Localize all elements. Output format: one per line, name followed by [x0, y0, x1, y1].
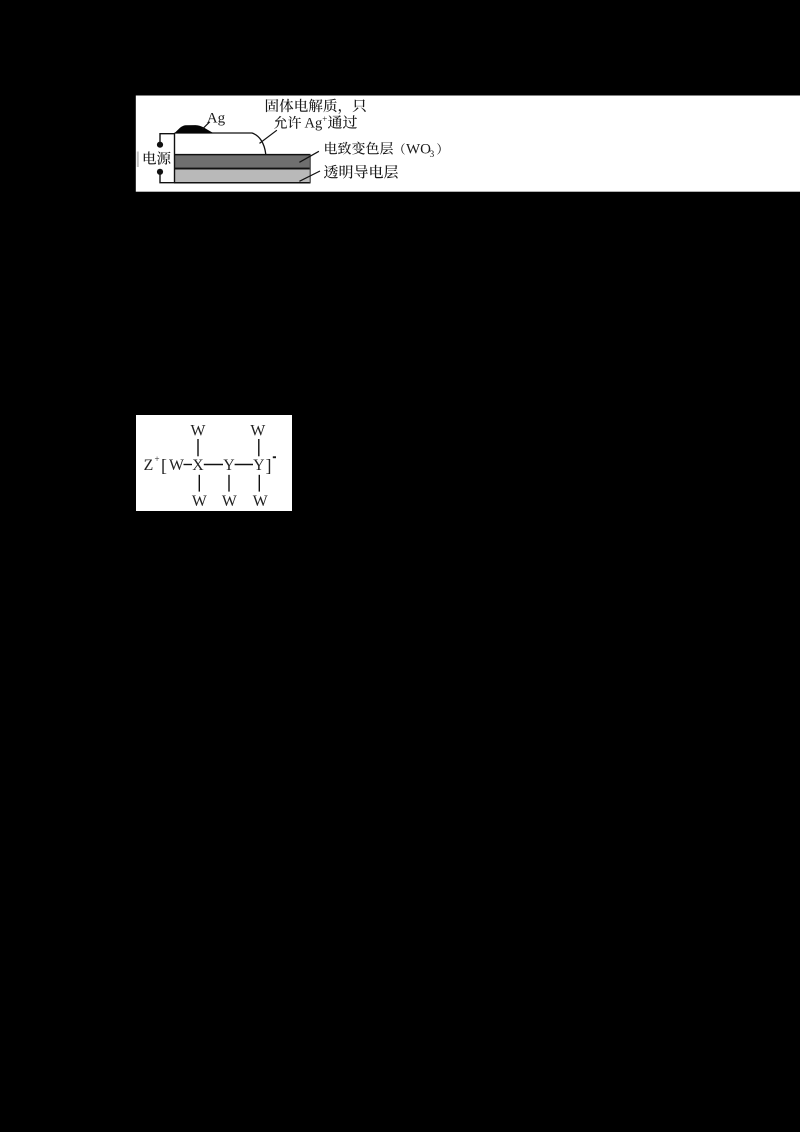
svg-text:W: W: [250, 423, 265, 440]
svg-text:W: W: [191, 423, 206, 440]
pointer line Ag label to blob: [202, 122, 209, 129]
label: 固体电解质，只: [266, 99, 366, 114]
Ag electrode blob: [174, 125, 214, 133]
svg-text:Z: Z: [144, 457, 154, 474]
svg-text:W: W: [222, 493, 237, 510]
svg-text:W: W: [169, 457, 184, 474]
svg-text:WO: WO: [406, 142, 431, 158]
bond Y to W vertical (bottom right): [258, 475, 260, 492]
bond X to W vertical (bottom left): [198, 475, 200, 492]
svg-text:+: +: [322, 114, 327, 124]
svg-text:[: [: [161, 456, 167, 476]
svg-text:W: W: [253, 493, 268, 510]
svg-text:Ag: Ag: [305, 116, 323, 132]
bond X-Y: [204, 464, 223, 466]
figure panel 2 background: [136, 415, 292, 511]
figure panel 1 background: [136, 96, 800, 192]
pointer line from electrolyte label to electrolyte: [260, 130, 277, 143]
stack left edge: [174, 133, 176, 183]
svg-text:X: X: [192, 457, 204, 474]
stack right edge: [309, 155, 311, 183]
pointer line to light layer: [299, 171, 320, 181]
label: 电致变色层（WO3）: [325, 142, 393, 155]
svg-text:]: ]: [266, 456, 272, 476]
electrochromic layer WO3 (dark gray): [174, 155, 311, 168]
power source label 电源: [144, 151, 171, 164]
bond W to Y vertical (top right): [258, 439, 260, 456]
svg-text:3: 3: [430, 150, 435, 160]
pointer line to dark layer: [299, 151, 319, 162]
svg-text:Y: Y: [223, 457, 234, 474]
label: 允许 Ag+ 通过: [274, 116, 301, 129]
terminal dot bottom: [157, 169, 163, 175]
transparent conductive layer (light gray): [174, 170, 311, 183]
solid electrolyte layer outline (top line + curved right edge): [175, 133, 266, 154]
bond W-X: [184, 464, 193, 466]
svg-text:W: W: [192, 493, 207, 510]
svg-text:Y: Y: [253, 457, 264, 474]
bond W to X vertical (top left): [197, 439, 199, 456]
separator line between layers: [174, 168, 311, 170]
negative charge mark: [273, 456, 276, 458]
svg-text:Ag: Ag: [207, 111, 226, 127]
bond Y to W vertical (bottom middle): [228, 475, 230, 492]
wire: top lead from source to stack: [160, 134, 175, 145]
wire: bottom lead from source to stack: [160, 172, 175, 183]
stray gray tick left of 电源: [137, 152, 139, 168]
svg-text:+: +: [154, 454, 159, 464]
label: 透明导电层: [324, 165, 398, 179]
bond Y-Y: [235, 464, 253, 466]
terminal dot top: [157, 142, 163, 148]
